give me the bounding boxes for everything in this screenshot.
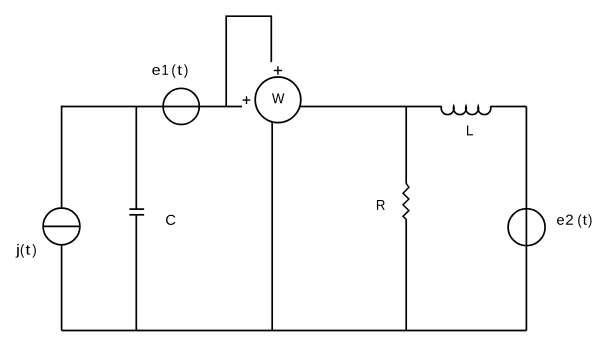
wattmeter W (255, 77, 301, 123)
wire: resistor branch upper segment (405, 107, 407, 184)
resistor R (403, 184, 409, 220)
wire: wattmeter bottom branch to bottom rail (271, 122, 273, 331)
wire: capacitor branch upper segment (135, 107, 137, 210)
label j(t) (16, 244, 36, 257)
current source J j(t) (43, 208, 80, 245)
wire: resistor branch lower segment (405, 219, 407, 330)
plus mark at wattmeter top terminal (274, 66, 282, 74)
label C (166, 215, 175, 225)
wire: top rail right segment (wattmeter right terminal to inductor) (300, 106, 442, 108)
wire: wattmeter voltage-coil loop (top) (226, 16, 271, 106)
wire: right rail (525, 107, 527, 331)
wire: bottom rail (62, 330, 527, 332)
label R (377, 200, 385, 210)
wire: top rail segment from inductor to right corner (491, 106, 527, 108)
label L (467, 125, 473, 135)
voltage source E2 e2(t) (508, 209, 545, 246)
inductor L (441, 106, 491, 114)
voltage source E1 e1(t) (163, 88, 199, 124)
label e2(t) (557, 214, 592, 227)
capacitor C (129, 209, 144, 215)
plus mark at wattmeter left terminal (243, 96, 251, 104)
wire: top rail left segment (node A to wattmeter left terminal) (62, 106, 242, 108)
label e1(t) (152, 64, 187, 77)
wire: left rail lower segment (61, 245, 63, 331)
wire: left rail upper segment (61, 106, 63, 209)
wire: capacitor branch lower segment (135, 215, 137, 331)
